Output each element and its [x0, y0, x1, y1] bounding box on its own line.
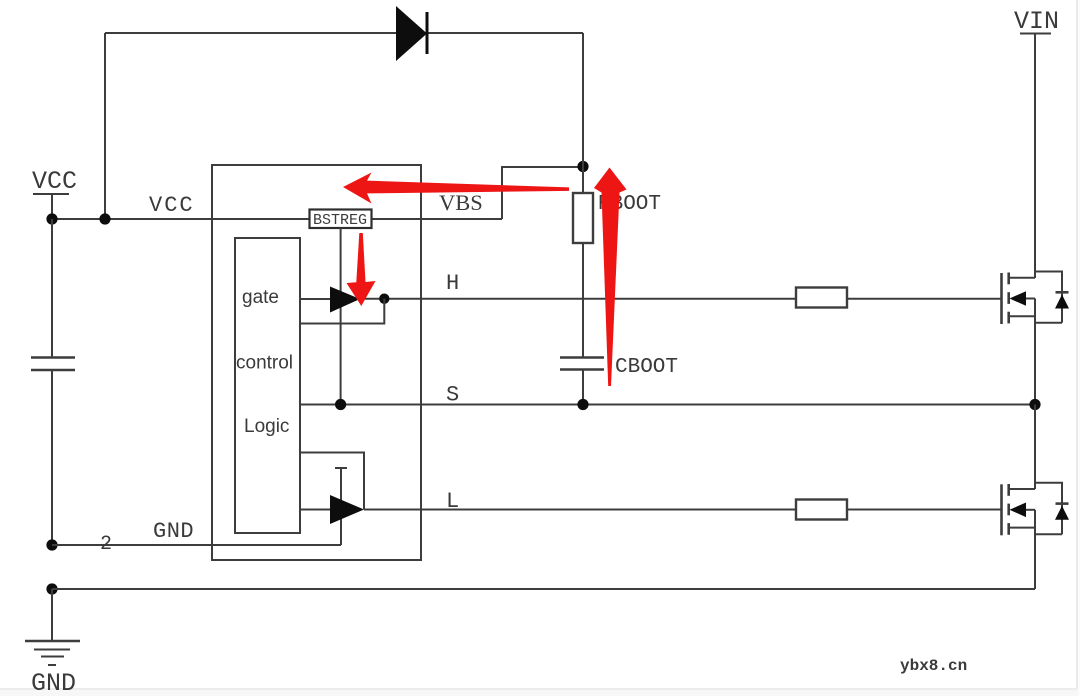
wire H driver feedback	[300, 299, 384, 324]
svg-text:VIN: VIN	[1014, 7, 1059, 36]
wire H driver input	[300, 298, 330, 300]
svg-text:GND: GND	[153, 519, 194, 544]
IC U1 outline	[212, 165, 421, 560]
wire bottom rail	[52, 588, 1035, 590]
wire to ground symbol	[51, 589, 53, 641]
svg-text:S: S	[446, 383, 459, 408]
svg-text:CBOOT: CBOOT	[615, 356, 678, 379]
gate control logic block	[235, 238, 300, 533]
svg-text:GND: GND	[31, 669, 76, 696]
wire BSTREG to S node	[340, 228, 342, 405]
junction switch node	[1029, 399, 1040, 410]
junction H driver output	[379, 294, 389, 304]
body diode Q2	[1035, 483, 1069, 535]
svg-text:VCC: VCC	[32, 167, 77, 196]
wire L gate	[847, 509, 1002, 511]
wire GND pin (net 2)	[52, 544, 341, 546]
page card edge bottom	[0, 688, 1077, 690]
wire VCC rail	[52, 218, 502, 220]
regulator BSTREG box	[310, 210, 372, 230]
resistor RBOOT	[573, 193, 593, 243]
transistor Q1 high-side MOSFET	[1002, 273, 1036, 325]
wire RBOOT to CBOOT	[582, 243, 584, 357]
junction S at BSTREG column	[335, 399, 346, 410]
junction VCC loop	[99, 213, 110, 224]
wire L driver input	[300, 509, 330, 511]
wire VBS riser	[502, 167, 583, 219]
wire top loop horizontal left (VCC to diode anode)	[105, 32, 396, 34]
diode D1 bootstrap (anode left, cathode right)	[396, 6, 427, 61]
svg-text:Logic: Logic	[244, 416, 289, 437]
capacitor CBOOT	[560, 358, 604, 405]
svg-text:gate: gate	[242, 287, 279, 308]
page card edge right	[1076, 0, 1078, 689]
wire Q1 source to S node	[1034, 299, 1036, 405]
wire Q2 source to bottom rail	[1034, 510, 1036, 589]
wire S line	[300, 404, 1035, 406]
wire bootstrap column top	[582, 33, 584, 193]
wire L line	[364, 509, 796, 511]
junction CBOOT S node	[577, 399, 588, 410]
wire S node to Q2 drain	[1034, 405, 1036, 490]
junction GND pin wire	[46, 539, 57, 550]
junction bootstrap node	[577, 161, 588, 172]
transistor Q2 low-side MOSFET	[1002, 484, 1036, 535]
wire VIN to Q1 drain	[1034, 34, 1036, 279]
buffer low-side driver	[330, 495, 364, 524]
annotation arrow red left (VBS charge path)	[343, 173, 569, 204]
annotation arrow red up (through RBOOT)	[594, 168, 627, 387]
low-side driver enclosure	[300, 453, 364, 510]
wire H line	[360, 298, 796, 300]
svg-text:L: L	[446, 489, 459, 514]
resistor RG high	[796, 288, 847, 308]
svg-text:VCC: VCC	[149, 193, 195, 218]
body diode Q1	[1035, 272, 1069, 323]
ground symbol	[25, 641, 80, 696]
low-side driver supply tap	[335, 468, 347, 545]
VCC supply symbol	[32, 167, 77, 219]
svg-text:VBS: VBS	[439, 190, 483, 215]
VIN supply symbol	[1014, 7, 1059, 36]
resistor RG low	[796, 500, 847, 520]
junction VCC symbol	[46, 213, 57, 224]
svg-text:ybx8.cn: ybx8.cn	[900, 657, 967, 675]
annotation arrow red down (to H driver)	[347, 233, 376, 306]
svg-text:H: H	[446, 271, 459, 296]
junction bottom rail	[46, 583, 57, 594]
svg-text:2: 2	[100, 533, 112, 556]
wire top loop vertical left	[104, 33, 106, 219]
svg-text:control: control	[236, 353, 293, 374]
buffer high-side driver	[330, 287, 360, 313]
svg-text:BSTREG: BSTREG	[313, 212, 367, 229]
wire H gate	[847, 298, 1002, 300]
wire top loop horizontal right (diode cathode to bootstrap column)	[427, 32, 583, 34]
capacitor C1 VCC (left)	[31, 219, 75, 545]
